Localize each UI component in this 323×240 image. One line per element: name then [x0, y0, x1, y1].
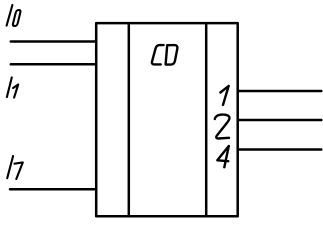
wire input I0 — [11, 40, 96, 43]
label CD — [152, 45, 177, 65]
wire output 1 — [238, 90, 322, 93]
wire output 2 — [238, 119, 322, 122]
right auxiliary field divider — [205, 24, 208, 215]
wire input I1 — [11, 63, 96, 66]
left auxiliary field divider — [128, 24, 131, 215]
input label I1 — [7, 77, 18, 97]
input label I7 — [7, 156, 23, 179]
output label 1 — [220, 86, 228, 105]
output label 2 — [215, 115, 230, 139]
wire output 4 — [238, 148, 322, 151]
input label I0 — [7, 5, 21, 26]
encoder block U1 outline — [96, 23, 238, 216]
wire input I7 — [10, 188, 96, 191]
output label 4 — [217, 146, 229, 167]
